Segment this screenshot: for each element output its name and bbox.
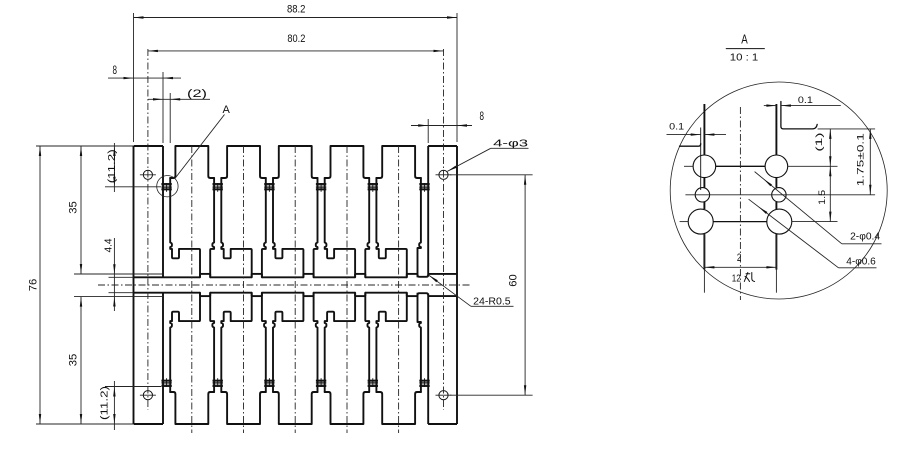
svg-text:88.2: 88.2 <box>287 4 306 16</box>
part outline: top edge segments <box>134 145 164 147</box>
svg-text:4.4: 4.4 <box>104 238 115 252</box>
svg-text:8: 8 <box>479 109 484 123</box>
detail circle around pin1 collar <box>157 176 178 197</box>
detail cross lines <box>716 165 765 167</box>
svg-text:(1): (1) <box>814 133 825 152</box>
svg-text:(11.2): (11.2) <box>100 386 111 420</box>
part outline: right edge <box>456 146 458 424</box>
svg-text:4-φ0.6: 4-φ0.6 <box>846 256 876 267</box>
dim 35 top <box>74 273 163 275</box>
detail pin centerline <box>739 107 741 300</box>
svg-text:2-φ0.4: 2-φ0.4 <box>850 232 880 243</box>
detail dim 1.75 +-0.1 <box>869 129 871 195</box>
label 2-phi0.4 leader <box>755 172 842 244</box>
tooth/pin 2 (top) <box>208 146 214 178</box>
svg-text:1.5: 1.5 <box>817 190 828 205</box>
detail dim 2 <box>703 235 705 293</box>
mounting hole phi3 #2 <box>439 170 448 179</box>
dim 8 (left) <box>162 72 164 143</box>
svg-text:0.1: 0.1 <box>798 95 813 106</box>
svg-text:12: 12 <box>732 273 741 285</box>
crimp collar pair on pin column 3 <box>264 183 274 185</box>
svg-text:2: 2 <box>737 252 742 264</box>
svg-text:35: 35 <box>67 354 79 367</box>
svg-text:0.1: 0.1 <box>669 122 684 133</box>
svg-text:(2): (2) <box>187 88 207 100</box>
tooth/pin 1 (top) <box>162 146 164 277</box>
detail right slot wall and floor <box>781 102 817 129</box>
feet bottom lines and gap floors (top half) <box>134 276 201 278</box>
label 24-R0.5 leader <box>429 275 471 306</box>
mounting hole phi3 #4 <box>439 391 448 400</box>
tooth/pin 9 (bottom) <box>260 392 266 424</box>
svg-text:4-φ3: 4-φ3 <box>493 138 528 150</box>
crimp collar pair on pin column 4 <box>316 183 326 185</box>
dim (11.2) bottom <box>105 386 161 388</box>
mounting hole phi3 #3 <box>143 391 152 400</box>
dim 88.2 <box>133 13 135 142</box>
tooth/pin 10 (bottom) <box>312 392 318 424</box>
dim (2) <box>169 93 171 143</box>
label A leader <box>175 115 225 179</box>
svg-text:80.2: 80.2 <box>287 33 305 45</box>
svg-text:(11.2): (11.2) <box>107 149 118 183</box>
tooth/pin 4 (top) <box>312 146 318 178</box>
svg-text:24-R0.5: 24-R0.5 <box>473 297 511 308</box>
svg-text:8: 8 <box>112 63 117 77</box>
detail notch circles phi0.6 row1 <box>693 155 716 178</box>
finger centerlines (dash-dot) <box>191 146 193 433</box>
dim 80.2 <box>148 50 444 52</box>
svg-text:A: A <box>223 104 231 116</box>
crimp collar pair on pin column 6 <box>419 183 429 185</box>
detail pin left edge <box>703 104 705 155</box>
detail hole circles phi0.4 row2 <box>695 188 709 202</box>
part outline: left edge <box>133 146 135 424</box>
detail dim (1) <box>829 129 831 166</box>
detail dim 1.5 <box>829 166 831 221</box>
svg-text:60: 60 <box>508 274 520 287</box>
label 4-phi0.6 leader <box>749 199 839 268</box>
svg-text:1.75±0.1: 1.75±0.1 <box>855 133 866 186</box>
svg-text:76: 76 <box>28 279 40 292</box>
tooth/pin 6 (top) <box>415 146 421 178</box>
crimp collar pair on pin column 2 <box>213 183 223 185</box>
tooth/pin 8 (bottom) <box>208 392 214 424</box>
mounting hole phi3 #1 <box>143 170 152 179</box>
vertical hole centerlines (dash-dot) <box>147 49 149 410</box>
detail left slot wall and floor <box>700 128 702 191</box>
dim 35 bottom <box>74 296 163 298</box>
part horizontal centerline <box>98 284 470 286</box>
dim 8 (right) <box>427 119 429 143</box>
tooth/pin 3 (top) <box>260 146 266 178</box>
right end strip edges <box>428 273 457 275</box>
crimp collar pair on pin column 1 <box>161 183 171 185</box>
svg-text:35: 35 <box>68 201 80 214</box>
detail view boundary circle <box>670 82 887 299</box>
crimp collar pair on pin column 5 <box>368 183 378 185</box>
svg-text:A: A <box>741 31 748 46</box>
detail notch circles phi0.6 row3 <box>688 209 713 234</box>
tooth/pin 7 (bottom) <box>162 293 164 424</box>
dim (11.2) top <box>105 186 161 188</box>
dim 4.4 <box>109 276 134 278</box>
dim 60 <box>450 174 533 176</box>
detail pin right edge <box>775 104 777 155</box>
detail right ext line y=128.9 <box>818 128 876 130</box>
label 4-phi3 leader <box>491 147 529 149</box>
tooth/pin 12 (bottom) <box>415 392 421 424</box>
svg-text:10 : 1: 10 : 1 <box>730 51 759 63</box>
dim 76 <box>36 145 133 147</box>
tooth/pin 11 (bottom) <box>363 392 369 424</box>
tooth/pin 5 (top) <box>363 146 369 178</box>
